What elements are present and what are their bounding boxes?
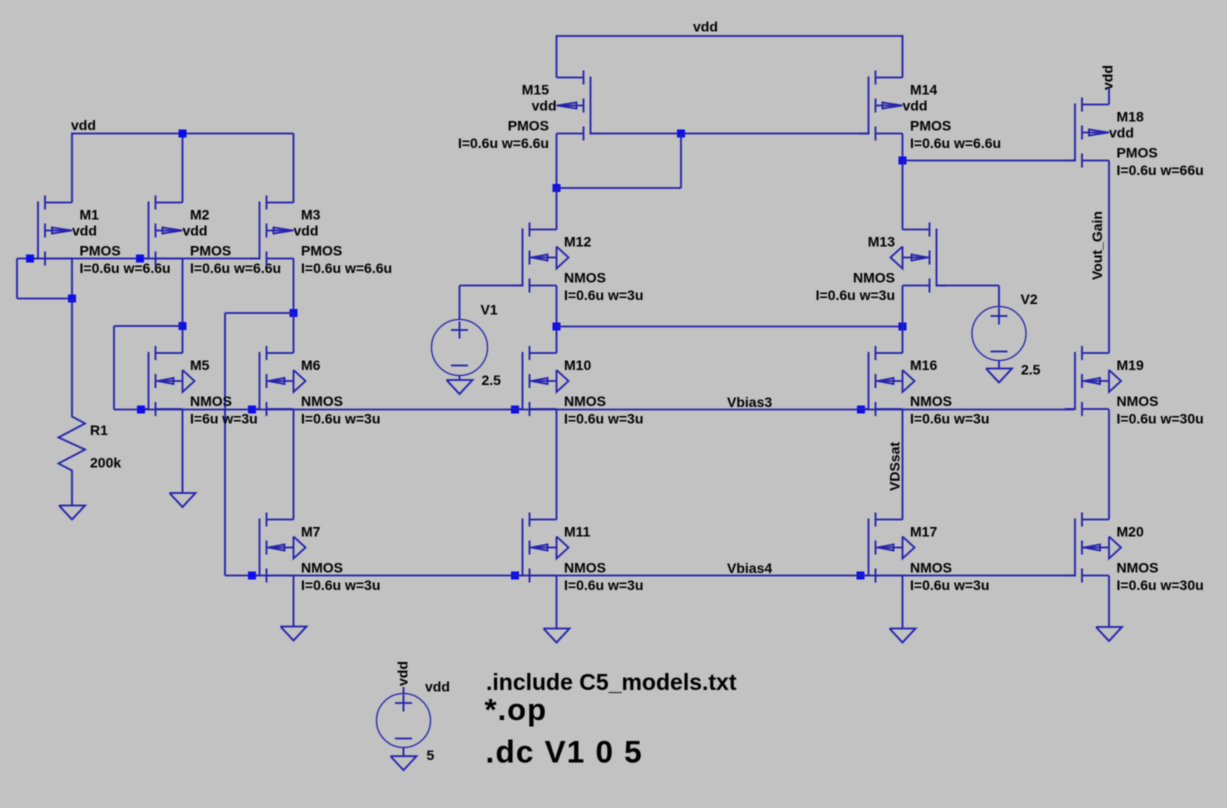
svg-text:M11: M11 (564, 524, 591, 540)
wire M13 source down (902, 286, 904, 354)
svg-text:NMOS: NMOS (910, 560, 952, 576)
ground under M17 (890, 629, 916, 643)
svg-text:NMOS: NMOS (1117, 393, 1159, 409)
svg-text:M17: M17 (910, 524, 937, 540)
svg-text:vdd: vdd (294, 223, 319, 239)
wire Vbias3 bus (114, 409, 1075, 411)
svg-text:NMOS: NMOS (564, 270, 606, 286)
nmos transistor M13 (816, 223, 947, 304)
svg-text:.dc V1 0 5: .dc V1 0 5 (486, 734, 643, 770)
svg-text:vdd: vdd (1109, 125, 1134, 141)
svg-text:I=0.6u w=6.6u: I=0.6u w=6.6u (80, 260, 171, 276)
svg-text:I=0.6u w=3u: I=0.6u w=3u (301, 577, 380, 593)
svg-text:PMOS: PMOS (80, 243, 121, 259)
ground under supply (391, 756, 417, 770)
voltage source Vdd symbol (377, 694, 431, 748)
pmos transistor M18 (1065, 98, 1204, 179)
svg-text:NMOS: NMOS (564, 393, 606, 409)
svg-text:M6: M6 (301, 357, 321, 373)
junction M2 drain / bias tap (179, 322, 187, 330)
wire M12 drain up to M15 (556, 188, 558, 230)
wire M14 drain to M18 gate (903, 160, 1075, 162)
nmos transistor M12 (513, 223, 644, 304)
wire M6 drain up to M3 drain node (293, 313, 295, 353)
svg-text:vdd: vdd (425, 679, 450, 695)
junction M1 gate pin (26, 255, 34, 263)
wire vdd drop to M3 (293, 134, 295, 203)
svg-text:vdd: vdd (903, 98, 928, 114)
wire M3 drain down (293, 259, 295, 314)
svg-text:NMOS: NMOS (301, 560, 343, 576)
wire V1 to M12 gate (460, 285, 523, 287)
wire M1 diode loop left (16, 259, 18, 299)
svg-text:PMOS: PMOS (910, 118, 951, 134)
wire M11 source to ground (556, 576, 558, 629)
svg-text:2.5: 2.5 (1021, 362, 1041, 378)
nmos transistor M19 (1065, 346, 1204, 427)
svg-text:I=0.6u w=6.6u: I=0.6u w=6.6u (190, 260, 281, 276)
svg-text:NMOS: NMOS (910, 393, 952, 409)
pmos transistor M2 (139, 196, 282, 277)
wire M6 source to M7 drain (293, 410, 295, 520)
svg-text:M2: M2 (190, 207, 210, 223)
svg-text:PMOS: PMOS (508, 118, 549, 134)
wire vdd drop to M2 (182, 134, 184, 203)
wire R1 top (71, 299, 73, 414)
junction M7 gate pin on Vbias4 (248, 572, 256, 580)
svg-text:M10: M10 (564, 357, 591, 373)
wire M15 drain down (556, 134, 558, 189)
svg-text:vdd: vdd (693, 19, 718, 35)
svg-text:vdd: vdd (183, 223, 208, 239)
svg-text:I=0.6u w=3u: I=0.6u w=3u (910, 577, 989, 593)
junction M5 gate pin on Vbias3 (137, 406, 145, 414)
svg-text:M19: M19 (1117, 357, 1144, 373)
wire rail drop to M15 (556, 35, 558, 78)
nmos transistor M7 (250, 513, 381, 594)
svg-text:I=0.6u w=6.6u: I=0.6u w=6.6u (458, 135, 549, 151)
svg-text:M15: M15 (522, 82, 549, 98)
junction M17 gate pin on Vbias4 (857, 572, 865, 580)
nmos transistor M10 (513, 346, 644, 427)
svg-text:I=0.6u w=30u: I=0.6u w=30u (1117, 411, 1204, 427)
svg-text:V2: V2 (1021, 291, 1038, 307)
wire V2 bottom lead (998, 361, 1000, 369)
junction middle node right (899, 323, 907, 331)
wire gate bus of M1 M2 M3 (17, 258, 260, 260)
svg-text:NMOS: NMOS (564, 560, 606, 576)
junction M6 gate pin on Vbias3 (248, 406, 256, 414)
svg-text:5: 5 (427, 747, 435, 763)
wire V1 bottom lead (459, 376, 461, 381)
wire R1 bottom (71, 473, 73, 506)
wire M1 diode loop bottom (17, 298, 72, 300)
svg-text:vdd: vdd (532, 98, 557, 114)
svg-text:Vbias3: Vbias3 (727, 394, 772, 410)
svg-text:NMOS: NMOS (190, 393, 232, 409)
wire M15 gate to M14 gate (591, 133, 869, 135)
voltage source V2 symbol (972, 307, 1026, 361)
wire V2 top lead (998, 286, 1000, 307)
svg-text:vdd: vdd (395, 661, 411, 686)
svg-text:M14: M14 (910, 82, 937, 98)
wire M10 source to M11 drain (556, 410, 558, 520)
svg-text:NMOS: NMOS (1117, 560, 1159, 576)
wire M15 drain feedback horizontal (557, 187, 682, 189)
svg-text:M1: M1 (80, 207, 100, 223)
svg-text:M16: M16 (910, 357, 937, 373)
svg-text:PMOS: PMOS (1117, 145, 1158, 161)
svg-text:I=0.6u w=3u: I=0.6u w=3u (564, 577, 643, 593)
nmos transistor M17 (859, 513, 990, 594)
pmos transistor M14 (859, 71, 1002, 152)
ground under M7 (281, 627, 307, 641)
ground under M5 (170, 493, 196, 507)
svg-text:M3: M3 (301, 207, 321, 223)
svg-text:M13: M13 (868, 234, 895, 250)
svg-text:*.op: *.op (485, 692, 548, 727)
svg-text:PMOS: PMOS (301, 243, 342, 259)
wire bias tap vertical to Vbias3 (113, 326, 115, 410)
svg-text:I=0.6u w=66u: I=0.6u w=66u (1117, 162, 1204, 178)
svg-text:I=0.6u w=3u: I=0.6u w=3u (816, 287, 895, 303)
svg-text:M7: M7 (301, 524, 321, 540)
svg-text:I=0.6u w=3u: I=0.6u w=3u (564, 287, 643, 303)
wire supply top stub (403, 687, 405, 694)
wire M16 source to M17 drain (VDSsat) (902, 410, 904, 520)
svg-text:I=0.6u w=30u: I=0.6u w=30u (1117, 577, 1204, 593)
wire M17 source to ground (902, 576, 904, 629)
junction on vdd rail at M2 drop (179, 130, 187, 138)
voltage source V1 symbol (432, 320, 488, 376)
ground under V2 (986, 369, 1012, 383)
svg-text:I=0.6u w=6.6u: I=0.6u w=6.6u (910, 135, 1001, 151)
wire supply bottom stub (403, 748, 405, 757)
nmos transistor M11 (513, 513, 644, 594)
junction M16 gate pin on Vbias3 (857, 406, 865, 414)
ground under M20 (1096, 627, 1122, 641)
junction M1 drain / R1 top (68, 295, 76, 303)
svg-text:V1: V1 (481, 302, 498, 318)
svg-text:I=0.6u w=3u: I=0.6u w=3u (910, 411, 989, 427)
svg-text:Vbias4: Vbias4 (727, 560, 772, 576)
wire M15 drain feedback vertical (680, 134, 682, 189)
svg-text:M20: M20 (1117, 524, 1144, 540)
junction M14 drain node (899, 157, 907, 165)
svg-text:200k: 200k (90, 455, 121, 471)
svg-text:M5: M5 (190, 357, 210, 373)
wire M19 source to M20 drain (1108, 410, 1110, 520)
ground under R1 (59, 506, 85, 520)
wire M3 drain to bypass column (225, 312, 294, 314)
wire middle node horizontal (557, 326, 903, 328)
wire M14 drain down (902, 134, 904, 161)
svg-text:PMOS: PMOS (190, 243, 231, 259)
wire M7 source to ground (293, 576, 295, 627)
wire M18 source stub (1108, 88, 1110, 105)
svg-text:I=0.6u w=3u: I=0.6u w=3u (301, 411, 380, 427)
junction M11 gate pin on Vbias4 (511, 572, 519, 580)
wire M1 drain down (71, 259, 73, 299)
svg-text:M18: M18 (1117, 109, 1144, 125)
svg-text:NMOS: NMOS (301, 393, 343, 409)
wire rail drop to M14 (902, 35, 904, 78)
nmos transistor M6 (250, 346, 381, 427)
wire M20 source to ground (1108, 576, 1110, 628)
wire bypass column down to Vbias4 (224, 313, 226, 576)
wire Vbias4 bus (225, 575, 1075, 577)
ground under V1 (447, 380, 473, 394)
wire bias tap horizontal (114, 325, 183, 327)
wire top vdd rail (557, 35, 903, 37)
wire output Vout_Gain vertical (1108, 161, 1110, 354)
nmos transistor M20 (1065, 513, 1204, 594)
junction M10 gate pin on Vbias3 (511, 406, 519, 414)
pmos transistor M1 (28, 196, 171, 277)
svg-text:vdd: vdd (72, 223, 97, 239)
wire M5 source to ground (182, 410, 184, 494)
svg-text:I=6u w=3u: I=6u w=3u (190, 411, 258, 427)
junction gate bus tap (677, 130, 685, 138)
svg-text:2.5: 2.5 (482, 372, 502, 388)
svg-text:I=0.6u w=6.6u: I=0.6u w=6.6u (301, 260, 392, 276)
junction M3 drain node (290, 309, 298, 317)
svg-text:VDSsat: VDSsat (887, 442, 903, 491)
junction M15 drain node (553, 184, 561, 192)
wire vdd rail left (72, 133, 294, 135)
svg-text:M12: M12 (564, 234, 591, 250)
svg-text:I=0.6u w=3u: I=0.6u w=3u (564, 411, 643, 427)
wire M13 gate to V2 (937, 285, 1000, 287)
nmos transistor M16 (859, 346, 990, 427)
resistor R1 (59, 412, 122, 473)
svg-text:R1: R1 (90, 422, 108, 438)
wire M13 drain up to M14 (902, 161, 904, 230)
junction middle node left (553, 323, 561, 331)
wire M12 source down (556, 286, 558, 354)
pmos transistor M15 (458, 71, 601, 152)
svg-text:Vout_Gain: Vout_Gain (1089, 211, 1105, 280)
junction M2 gate pin (136, 255, 144, 263)
wire M2 drain down to M5 (182, 259, 184, 354)
nmos transistor M5 (139, 346, 258, 427)
wire vdd drop to M1 (71, 133, 73, 203)
pmos transistor M3 (250, 196, 393, 277)
ground under M11 (544, 629, 570, 643)
svg-text:NMOS: NMOS (853, 270, 895, 286)
svg-text:vdd: vdd (1100, 65, 1116, 90)
wire V1 top lead (459, 286, 461, 320)
svg-text:vdd: vdd (71, 117, 96, 133)
